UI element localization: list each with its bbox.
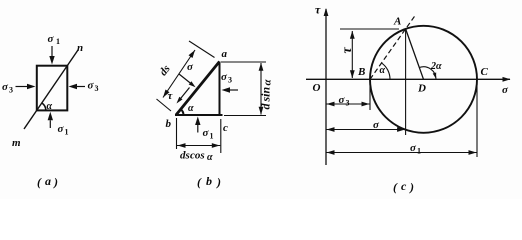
- svg-text:3: 3: [346, 99, 350, 108]
- extension line from c (right): [224, 115, 266, 117]
- svg-text:α: α: [380, 65, 386, 76]
- ds dimension line with arrows: [163, 50, 195, 98]
- arrow sigma3 on face ac: [222, 87, 239, 92]
- svg-text:α: α: [188, 103, 194, 114]
- vertical line from A down: [405, 29, 407, 135]
- svg-text:): ): [53, 175, 58, 189]
- arrow sigma1 on face bc: [195, 117, 200, 133]
- dimension sigma: [326, 127, 406, 132]
- label tau (b): [168, 90, 174, 102]
- extension line below c: [220, 119, 222, 153]
- tau dimension line (vertical, with arrows): [350, 31, 355, 79]
- label alpha (b): [188, 103, 194, 114]
- svg-text:): ): [216, 175, 221, 189]
- svg-text:C: C: [481, 66, 489, 78]
- tau axis: [324, 8, 329, 165]
- label sigma1 (c): [410, 142, 421, 156]
- label sigma1 bottom (a): [58, 123, 69, 137]
- section line m-n: [24, 50, 78, 129]
- angle alpha arc (b): [181, 109, 184, 115]
- arrow tau along face: [177, 88, 190, 104]
- svg-text:cos: cos: [190, 150, 205, 162]
- angle alpha arc (a): [42, 103, 46, 110]
- wedge bottom edge b-c: [175, 114, 223, 116]
- svg-text:b: b: [206, 174, 212, 188]
- svg-text:1: 1: [56, 37, 60, 46]
- label sigma (b): [187, 61, 194, 73]
- svg-text:n: n: [77, 42, 83, 54]
- dimension sigma3: [326, 102, 370, 107]
- label tau (rotated) on dimension: [340, 47, 355, 54]
- svg-text:α: α: [47, 101, 53, 112]
- svg-text:2α: 2α: [430, 61, 442, 72]
- label sigma3 right (a): [88, 80, 99, 94]
- dashed chord B-A extended: [370, 15, 416, 80]
- svg-text:m: m: [12, 137, 21, 149]
- label dscos alpha: [180, 150, 213, 164]
- extension line at a for ds: [189, 41, 215, 58]
- extension below B: [369, 81, 371, 110]
- label sigma1 (b): [203, 127, 214, 141]
- label sigma1 top (a): [48, 33, 61, 46]
- radius D-A: [406, 29, 424, 79]
- svg-text:d: d: [259, 103, 273, 110]
- svg-text:3: 3: [228, 76, 232, 85]
- wedge right edge a-c: [219, 62, 221, 116]
- svg-text:α: α: [207, 152, 213, 163]
- arrow sigma3 left (a): [16, 84, 36, 89]
- svg-text:sin: sin: [259, 86, 273, 102]
- svg-text:c: c: [223, 122, 228, 134]
- label ds (rotated): [157, 63, 172, 78]
- dimension sigma1: [326, 150, 477, 155]
- label sigma3 (b): [221, 71, 232, 85]
- svg-text:ds: ds: [180, 150, 190, 162]
- label alpha (c): [380, 65, 386, 76]
- svg-text:): ): [409, 180, 414, 194]
- label n: [77, 42, 83, 54]
- caption (a): [37, 174, 58, 189]
- arrow sigma on inclined face: [179, 74, 196, 87]
- svg-text:3: 3: [95, 84, 99, 93]
- label sigma3 left (a): [2, 81, 13, 95]
- svg-text:a: a: [45, 174, 51, 188]
- extension line from a (right): [221, 61, 266, 63]
- label sigma3 (c): [339, 94, 350, 108]
- angle alpha arc at B: [382, 63, 391, 79]
- dimension line dsin alpha: [259, 63, 264, 115]
- svg-text:b: b: [166, 118, 172, 130]
- label tau axis: [315, 3, 321, 17]
- horizontal extension line at A level: [340, 28, 399, 30]
- svg-text:c: c: [401, 179, 407, 193]
- svg-text:3: 3: [9, 86, 13, 95]
- svg-text:1: 1: [210, 132, 214, 141]
- svg-text:τ: τ: [340, 47, 355, 54]
- stress element rectangle (a): [37, 66, 68, 111]
- svg-text:1: 1: [65, 128, 69, 137]
- svg-text:α: α: [262, 79, 274, 86]
- svg-text:a: a: [222, 48, 228, 60]
- dimension line dscos alpha: [177, 143, 220, 148]
- svg-text:B: B: [357, 66, 365, 78]
- label a: [222, 48, 228, 60]
- label D: [417, 83, 426, 95]
- label dsin alpha (rotated): [259, 79, 274, 110]
- label c: [223, 122, 228, 134]
- svg-text:A: A: [393, 16, 401, 28]
- sigma axis: [306, 77, 511, 82]
- label sigma (c): [373, 119, 380, 131]
- label b: [166, 118, 172, 130]
- svg-text:τ: τ: [315, 3, 321, 17]
- label C: [481, 66, 489, 78]
- extension line at b for ds: [157, 99, 172, 111]
- svg-text:1: 1: [417, 147, 421, 156]
- arrow sigma3 right (a): [69, 84, 86, 89]
- label O origin: [313, 82, 321, 94]
- caption (b): [197, 174, 221, 189]
- arrow sigma1 bottom (a): [48, 112, 53, 128]
- label sigma axis: [502, 84, 509, 96]
- label A: [393, 16, 401, 28]
- extension line below b: [176, 118, 178, 149]
- label B: [357, 66, 365, 78]
- svg-text:O: O: [313, 82, 321, 94]
- arrow sigma1 top (a): [49, 46, 54, 65]
- angle 2alpha arc at D: [419, 67, 436, 80]
- caption (c): [393, 179, 414, 194]
- wedge inclined face b-a (bold): [176, 62, 220, 116]
- extension below C: [476, 81, 478, 157]
- svg-text:D: D: [417, 83, 426, 95]
- label alpha (a): [47, 101, 53, 112]
- label m: [12, 137, 21, 149]
- Mohr circle: [370, 26, 477, 133]
- label 2alpha: [430, 61, 442, 72]
